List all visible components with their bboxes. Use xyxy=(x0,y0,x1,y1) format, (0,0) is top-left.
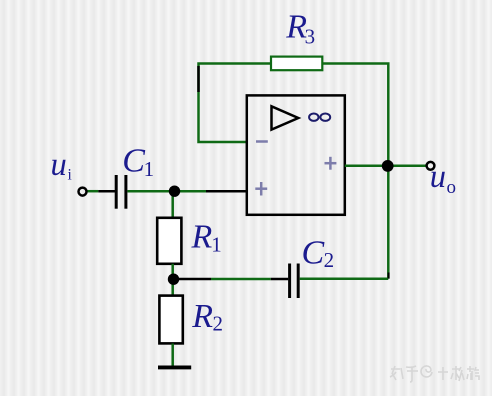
label R3 xyxy=(285,8,315,48)
label u_i xyxy=(51,147,73,184)
svg-text:u: u xyxy=(51,147,67,183)
node B junction dot xyxy=(168,274,179,285)
wire R2 to ground xyxy=(171,344,174,367)
op-amp minus input label xyxy=(256,140,268,143)
resistor R1 xyxy=(157,218,181,264)
svg-text:R: R xyxy=(191,218,213,255)
op-amp triangle xyxy=(272,106,299,129)
wire R3 right to output column xyxy=(323,64,389,279)
label u_o xyxy=(430,159,456,198)
svg-text:C: C xyxy=(302,235,325,272)
svg-text:u: u xyxy=(430,159,446,195)
wire R1 to node B to R2 xyxy=(171,264,174,296)
wire node A down to R1 xyxy=(171,191,174,217)
output terminal circle xyxy=(427,162,435,170)
resistor R2 xyxy=(159,296,182,344)
wire input terminal to C1 xyxy=(87,190,116,193)
wire node A to op-amp noninverting input xyxy=(175,190,248,193)
ground xyxy=(158,365,191,369)
svg-text:i: i xyxy=(68,167,73,184)
input terminal circle xyxy=(79,188,87,196)
svg-text:2: 2 xyxy=(324,248,335,272)
node A junction dot xyxy=(169,186,180,197)
svg-text:R: R xyxy=(191,298,213,335)
op-amp plus input label xyxy=(255,182,267,196)
wire C2 to output column xyxy=(300,273,389,279)
resistor R3 xyxy=(271,57,322,71)
wire op-amp output to terminal xyxy=(345,165,426,168)
op-amp U1 box xyxy=(247,95,345,214)
label R1 xyxy=(191,218,222,256)
label C1 xyxy=(122,143,154,181)
svg-text:1: 1 xyxy=(144,157,155,181)
wire feedback from R3 left down to inverting input xyxy=(199,64,271,143)
op-amp infinity gain symbol xyxy=(309,114,330,121)
op-amp output plus label xyxy=(325,157,337,170)
svg-text:o: o xyxy=(447,177,457,198)
svg-text:C: C xyxy=(122,143,145,180)
svg-text:1: 1 xyxy=(211,232,222,256)
svg-text:3: 3 xyxy=(305,24,316,48)
watermark zhihu xyxy=(390,366,479,382)
label C2 xyxy=(302,235,335,273)
wire node B to C2 xyxy=(178,278,288,281)
wire C1 to node A xyxy=(127,190,170,193)
label R2 xyxy=(191,298,223,336)
capacitor C2 xyxy=(290,264,299,299)
node C output junction dot xyxy=(382,160,394,172)
svg-text:2: 2 xyxy=(213,311,224,335)
capacitor C1 xyxy=(116,175,126,209)
